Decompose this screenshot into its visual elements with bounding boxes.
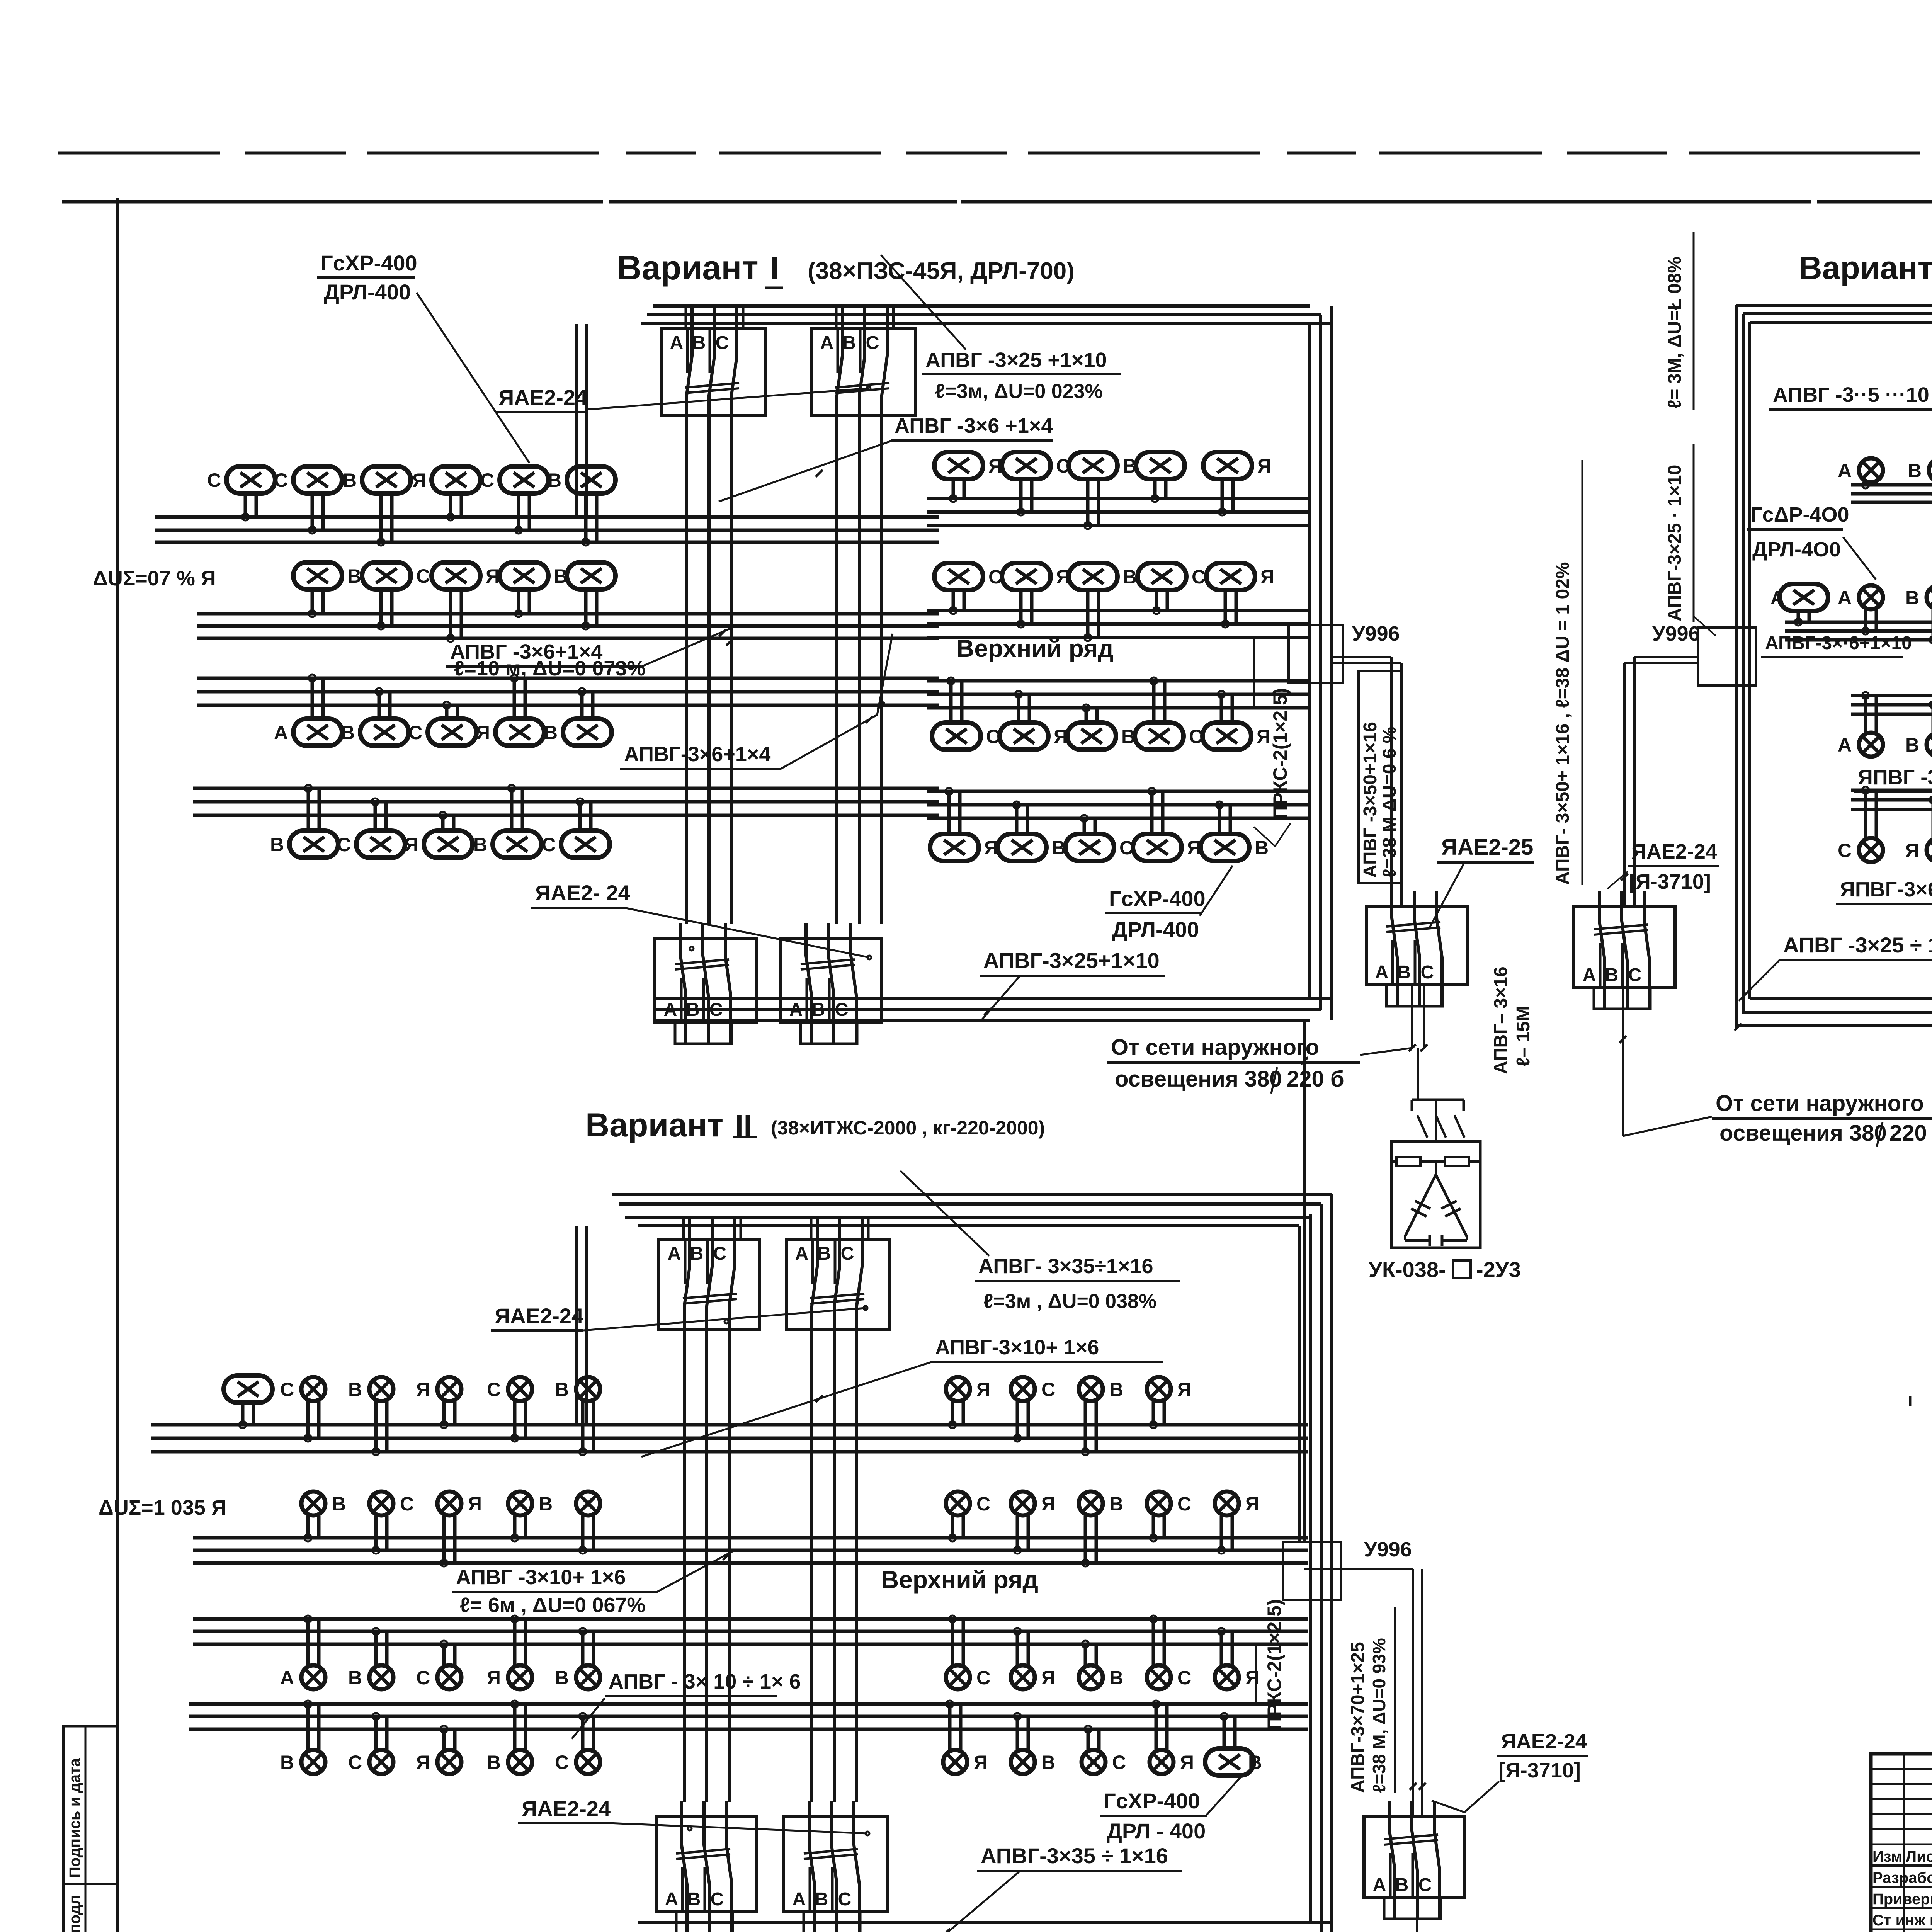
- svg-text:С: С: [986, 726, 1000, 747]
- svg-text:ℓ= 3М, ΔU=Ł 08%: ℓ= 3М, ΔU=Ł 08%: [1665, 257, 1685, 409]
- svg-text:С: С: [988, 566, 1002, 588]
- svg-text:В: В: [332, 1493, 346, 1515]
- svg-text:В: В: [1123, 566, 1137, 588]
- lamp row V1-3 right lamps: [932, 723, 1270, 750]
- svg-text:А: А: [795, 1243, 809, 1264]
- lamp row V2-3 left lamps: [280, 1665, 600, 1689]
- svg-text:А: А: [820, 333, 834, 353]
- wire bundle: V1 top routing: [653, 304, 1310, 308]
- svg-text:АПВГ- 3×50+ 1×16 , ℓ=38 ΔU = 1: АПВГ- 3×50+ 1×16 , ℓ=38 ΔU = 1 02%: [1553, 562, 1573, 885]
- wire: header row line: [1871, 1864, 1932, 1867]
- lamp row V2-4 left lamps: [280, 1750, 600, 1774]
- svg-text:АПВГ- 3×35÷1×16: АПВГ- 3×35÷1×16: [978, 1255, 1153, 1278]
- svg-text:От сети наружного: От сети наружного: [1716, 1091, 1924, 1116]
- svg-text:В: В: [341, 722, 355, 743]
- svg-text:ДРЛ-4О0: ДРЛ-4О0: [1752, 538, 1841, 561]
- wire: title block revision rows: [1871, 1768, 1932, 1770]
- svg-text:С: С: [542, 834, 556, 855]
- wire bundle: V2 top routing: [612, 1193, 1332, 1196]
- lamp row V1-2 left lamps: [293, 562, 616, 589]
- svg-text:С: С: [711, 1889, 724, 1910]
- lamp row V2-3 left bus wires: [193, 1619, 939, 1644]
- lamp row V3-4 left lamps: [1838, 838, 1932, 862]
- node: capacitor unit УК-038 switch bracket: [1412, 1099, 1464, 1101]
- wire bundle: V1 bottom routing: [655, 997, 1332, 1000]
- svg-text:С: С: [280, 1379, 294, 1400]
- lamp row V1-1 right lamps: [934, 452, 1271, 479]
- lamp row V2-2 left drop wires: [304, 1516, 594, 1566]
- lamp row V2-4 right lamps: [943, 1748, 1262, 1776]
- svg-text:Я: Я: [984, 837, 998, 859]
- svg-text:ℓ=3м , ΔU=0 038%: ℓ=3м , ΔU=0 038%: [983, 1290, 1156, 1313]
- lamp row V1-3 left lamps: [274, 719, 612, 746]
- svg-text:Вариант: Вариант: [585, 1107, 723, 1144]
- svg-text:ДРЛ-400: ДРЛ-400: [1112, 917, 1199, 942]
- svg-text:Я: Я: [1041, 1667, 1055, 1689]
- wire: title block verticals left table: [1903, 1754, 1905, 1932]
- node: title block frame: [1871, 1754, 1932, 1932]
- wire: sheet top border: [62, 200, 1932, 204]
- svg-text:С: С: [713, 1243, 727, 1264]
- svg-text:Я: Я: [468, 1493, 482, 1515]
- svg-text:АПВГ-3×70+1×25: АПВГ-3×70+1×25: [1348, 1642, 1368, 1793]
- svg-text:В: В: [692, 333, 706, 353]
- wire bundle: V3 top routing: [1736, 304, 1932, 307]
- svg-text:В: В: [1248, 1752, 1262, 1773]
- svg-text:Я: Я: [1056, 566, 1070, 588]
- svg-text:С: С: [1177, 1667, 1191, 1689]
- svg-text:С: С: [1838, 840, 1852, 861]
- svg-text:С: С: [838, 1889, 852, 1910]
- lamp row V2-4 left bus wires: [189, 1704, 939, 1729]
- wire: V1 feed down to V2: [1303, 1020, 1306, 1542]
- lamp row V1-4 right drop wires: [946, 788, 1230, 834]
- svg-text:ДРЛ - 400: ДРЛ - 400: [1107, 1819, 1206, 1843]
- breaker mid-right: [1574, 891, 1675, 1009]
- wire: V1 left riser pair to row1 bus: [575, 324, 578, 517]
- svg-text:Я: Я: [476, 722, 490, 743]
- svg-text:В: В: [815, 1889, 828, 1910]
- svg-text:Я: Я: [486, 565, 500, 587]
- label От сети наружного (middle, V1 feed) leader: [1360, 1048, 1412, 1055]
- svg-text:В: В: [1255, 837, 1269, 859]
- svg-text:С: С: [348, 1752, 362, 1773]
- svg-text:ГсХР-400: ГсХР-400: [1104, 1789, 1200, 1813]
- lamp row V3-1 left bus wires: [1851, 485, 1932, 502]
- lamp row V2-3 left drop wires: [304, 1616, 594, 1665]
- svg-text:Я: Я: [1245, 1667, 1259, 1689]
- svg-text:С: С: [1628, 965, 1642, 985]
- svg-text:В: В: [1395, 1875, 1409, 1895]
- svg-text:Я: Я: [1180, 1752, 1194, 1773]
- svg-text:Я: Я: [1177, 1379, 1191, 1400]
- svg-text:В: В: [1605, 965, 1619, 985]
- svg-text:Я: Я: [1041, 1493, 1055, 1515]
- svg-text:ЯПВГ -3×6÷ 1×4: ЯПВГ -3×6÷ 1×4: [1858, 766, 1932, 789]
- svg-text:Вариант: Вариант: [617, 248, 759, 287]
- lamp row V1-4 right lamps: [930, 834, 1269, 861]
- lamp row V2-2 right drop wires: [949, 1516, 1232, 1566]
- svg-text:А: А: [1375, 962, 1389, 983]
- svg-text:ΔUΣ=1 035 Я: ΔUΣ=1 035 Я: [99, 1496, 226, 1519]
- svg-text:В: В: [270, 834, 284, 855]
- svg-text:С: С: [480, 469, 494, 491]
- svg-text:У996: У996: [1652, 622, 1700, 645]
- wire bundle: V3 bottom routing: [1750, 997, 1932, 1000]
- lamp row V1-4 left drop wires: [305, 785, 591, 831]
- svg-text:С: С: [1421, 962, 1434, 983]
- svg-text:С: С: [1418, 1875, 1432, 1895]
- svg-text:Я: Я: [1260, 566, 1274, 588]
- node: capacitor unit УК-038 box: [1391, 1141, 1480, 1248]
- wire: U996-V1 to breaker link: [1332, 656, 1391, 658]
- breaker V2 bottom B: [784, 1801, 887, 1932]
- svg-text:С: С: [1189, 726, 1203, 747]
- lamp row V1-3 left drop wires: [309, 675, 593, 719]
- svg-text:В: В: [1123, 455, 1137, 477]
- wire: sheet left border: [116, 198, 119, 1932]
- node: УК resistors: [1396, 1157, 1420, 1166]
- node: U996 box V2: [1283, 1542, 1341, 1600]
- svg-text:В: В: [539, 1493, 553, 1515]
- svg-text:Приверил: Приверил: [1872, 1891, 1932, 1908]
- wire bundle: V1 right routing: [1308, 324, 1311, 999]
- svg-text:ℓ=38 М, ΔU=0 93%: ℓ=38 М, ΔU=0 93%: [1369, 1638, 1389, 1793]
- svg-text:Я: Я: [1257, 726, 1270, 747]
- lamp row V2-2 left bus wires: [193, 1538, 939, 1563]
- node: УК delta capacitors: [1405, 1175, 1436, 1236]
- svg-text:АПВГ -3··5 ···10: АПВГ -3··5 ···10: [1773, 383, 1929, 406]
- svg-text:В: В: [1398, 962, 1411, 983]
- breaker V2 top B: [786, 1217, 890, 1345]
- lamp row V3-2 left lamps: [1770, 584, 1932, 611]
- svg-text:І: І: [1908, 1393, 1912, 1410]
- wire: V2 left riser pair to row1 bus: [575, 1226, 578, 1425]
- svg-text:С: С: [841, 1243, 854, 1264]
- svg-text:Верхний ряд: Верхний ряд: [881, 1566, 1038, 1594]
- svg-text:Ст инж пр: Ст инж пр: [1872, 1912, 1932, 1929]
- svg-text:В: В: [1052, 837, 1066, 859]
- lamp row V2-1 right bus wires: [927, 1425, 1308, 1452]
- svg-text:-2У3: -2У3: [1476, 1257, 1521, 1282]
- svg-text:С: С: [487, 1379, 501, 1400]
- svg-text:освещения 380: освещения 380: [1115, 1066, 1282, 1092]
- svg-text:Верхний ряд: Верхний ряд: [956, 634, 1114, 662]
- svg-text:А: А: [665, 1889, 679, 1910]
- wire: strip divider horizontal: [63, 1883, 118, 1885]
- svg-text:ГсХР-400: ГсХР-400: [321, 251, 417, 275]
- svg-text:В: В: [347, 565, 361, 587]
- svg-text:У996: У996: [1364, 1538, 1412, 1561]
- svg-text:А: А: [670, 333, 684, 353]
- svg-text:Я: Я: [1257, 455, 1271, 477]
- svg-text:Я: Я: [1187, 837, 1201, 859]
- svg-text:АПВГ-3×6+1×4: АПВГ-3×6+1×4: [624, 743, 770, 766]
- svg-text:А: А: [1838, 460, 1852, 481]
- svg-text:ГсХР-400: ГсХР-400: [1109, 886, 1206, 911]
- wire: mid-left breaker to capacitor: [1411, 985, 1413, 1048]
- lamp row V2-2 left lamps: [301, 1492, 600, 1515]
- svg-text:ЯПВГ-3×6+ 1× 4: ЯПВГ-3×6+ 1× 4: [1840, 878, 1932, 901]
- svg-text:[Я-3710]: [Я-3710]: [1629, 870, 1711, 893]
- svg-text:А: А: [274, 722, 288, 743]
- svg-text:Я: Я: [988, 455, 1002, 477]
- svg-text:АПВГ-3×25+1×10: АПВГ-3×25+1×10: [983, 948, 1160, 973]
- svg-text:В: В: [343, 469, 357, 491]
- svg-text:АПВГ -3×25 +1×10: АПВГ -3×25 +1×10: [925, 349, 1107, 372]
- svg-text:В: В: [1041, 1752, 1055, 1773]
- svg-text:С: С: [207, 469, 221, 491]
- svg-text:АПВГ– 3×16: АПВГ– 3×16: [1491, 966, 1511, 1074]
- lamp row V2-1 left bus wires: [151, 1425, 939, 1452]
- svg-text:В: В: [1109, 1493, 1123, 1515]
- lamp row V2-3 right lamps: [946, 1665, 1259, 1689]
- svg-text:АПВГ-3×35 ÷ 1×16: АПВГ-3×35 ÷ 1×16: [981, 1844, 1168, 1868]
- svg-text:А: А: [1838, 734, 1852, 756]
- svg-text:[Я-3710]: [Я-3710]: [1498, 1759, 1581, 1782]
- svg-text:ГсΔР-4О0: ГсΔР-4О0: [1750, 503, 1849, 526]
- lamp row V2-3 right bus wires: [927, 1619, 1308, 1644]
- lamp row V3-3 left drop wires: [1862, 692, 1932, 732]
- wire: mid-right breaker down to network: [1622, 987, 1624, 1136]
- lamp row V2-3 right drop wires: [949, 1616, 1232, 1665]
- wire bundle: V1 riser B: [835, 429, 838, 924]
- svg-text:В: В: [1109, 1379, 1123, 1400]
- svg-text:ЯАЕ2-24: ЯАЕ2-24: [522, 1796, 611, 1821]
- svg-text:А: А: [668, 1243, 681, 1264]
- wire bundle: V1 riser A: [685, 429, 688, 924]
- svg-text:ΔUΣ=07 % Я: ΔUΣ=07 % Я: [93, 567, 216, 590]
- wire bundle: V2 riser A: [683, 1343, 686, 1802]
- svg-text:В: В: [473, 834, 487, 855]
- svg-text:В: В: [1109, 1667, 1123, 1689]
- svg-text:С: С: [1041, 1379, 1055, 1400]
- lamp row V2-1 right drop wires: [949, 1401, 1164, 1455]
- svg-text:В: В: [544, 722, 558, 743]
- lamp row V3-1 left drop wires: [1862, 481, 1932, 506]
- svg-text:АПВГ-3×·6+1×10: АПВГ-3×·6+1×10: [1765, 633, 1912, 653]
- svg-text:(38×ИТЖС-2000 , кг-220-2000): (38×ИТЖС-2000 , кг-220-2000): [771, 1117, 1045, 1139]
- lamp row V1-3 left bus wires: [197, 678, 939, 705]
- lamp row V2-1 left drop wires: [239, 1401, 594, 1455]
- svg-text:Разрабо: Разрабо: [1872, 1869, 1932, 1886]
- svg-text:С: С: [866, 333, 879, 353]
- svg-text:В: В: [687, 1889, 701, 1910]
- lamp row V2-1 right lamps: [946, 1377, 1191, 1401]
- svg-text:Инв №-подл: Инв №-подл: [66, 1895, 83, 1932]
- svg-text:АПВГ-3×25 · 1×10: АПВГ-3×25 · 1×10: [1665, 465, 1685, 621]
- svg-text:ЯАЕ2-24: ЯАЕ2-24: [498, 385, 587, 410]
- svg-text:ЯАЕ2- 24: ЯАЕ2- 24: [535, 881, 630, 905]
- breaker V1 bottom B: [781, 923, 882, 1044]
- svg-text:ЯАЕ2-24: ЯАЕ2-24: [1501, 1730, 1587, 1753]
- lamp row V1-1 right bus wires: [927, 498, 1308, 526]
- svg-text:освещения 380: освещения 380: [1719, 1121, 1887, 1146]
- breaker V1 top B: [811, 306, 916, 431]
- lamp row V1-2 right drop wires: [950, 590, 1236, 641]
- svg-text:АПВГ -3×25 ÷ 1× 10: АПВГ -3×25 ÷ 1× 10: [1783, 933, 1932, 957]
- svg-text:(38×ПЗС-45Я, ДРЛ-700): (38×ПЗС-45Я, ДРЛ-700): [808, 258, 1075, 284]
- svg-text:АПВГ-3×10+ 1×6: АПВГ-3×10+ 1×6: [935, 1336, 1099, 1359]
- svg-text:С: С: [1119, 837, 1133, 859]
- svg-text:ЯАЕ2-24: ЯАЕ2-24: [1631, 840, 1717, 863]
- svg-text:Я: Я: [487, 1667, 501, 1689]
- svg-text:В: В: [843, 333, 856, 353]
- svg-text:I: I: [770, 250, 779, 286]
- svg-text:АПВГ - 3× 10 ÷ 1× 6: АПВГ - 3× 10 ÷ 1× 6: [609, 1670, 801, 1693]
- wire: top scan artifact dashed line: [58, 152, 1932, 155]
- svg-text:Я: Я: [1245, 1493, 1259, 1515]
- lamp row V2-2 right bus wires: [927, 1538, 1308, 1563]
- svg-text:Я: Я: [974, 1752, 988, 1773]
- lamp row V1-2 left drop wires: [309, 589, 597, 642]
- svg-text:А: А: [1373, 1875, 1386, 1895]
- svg-text:Я: Я: [412, 469, 426, 491]
- label box АПВГ-3х50+1х16 vertical V1: [1359, 671, 1402, 883]
- wire: strip divider vertical: [85, 1726, 87, 1932]
- lamp row V2-4 right bus wires: [927, 1704, 1308, 1729]
- svg-text:В: В: [1905, 734, 1919, 756]
- svg-text:ℓ=38 М ΔU=0 6 %: ℓ=38 М ΔU=0 6 %: [1379, 727, 1400, 878]
- svg-text:АПВГ -3×50+1×16: АПВГ -3×50+1×16: [1360, 722, 1381, 878]
- svg-text:В: В: [548, 469, 561, 491]
- svg-text:С: С: [976, 1667, 990, 1689]
- svg-text:ℓ= 6м , ΔU=0 067%: ℓ= 6м , ΔU=0 067%: [460, 1594, 645, 1617]
- svg-text:У996: У996: [1352, 622, 1400, 645]
- svg-text:Я: Я: [1905, 840, 1919, 861]
- svg-text:С: С: [416, 565, 430, 587]
- svg-text:В: В: [1905, 587, 1919, 609]
- svg-text:Я: Я: [1054, 726, 1068, 747]
- svg-text:УК-038-: УК-038-: [1369, 1257, 1446, 1282]
- svg-text:С: С: [400, 1493, 414, 1515]
- lamp row V2-4 left drop wires: [304, 1701, 594, 1750]
- svg-text:Изм: Изм: [1872, 1848, 1902, 1865]
- svg-text:В: В: [1908, 460, 1922, 481]
- svg-text:С: С: [337, 834, 351, 855]
- svg-text:А: А: [1770, 587, 1784, 609]
- lamp row V1-2 right bus wires: [927, 611, 1308, 638]
- svg-text:Я: Я: [976, 1379, 990, 1400]
- node: left stamp strip box: [63, 1726, 118, 1932]
- svg-text:АПВГ -3×6 +1×4: АПВГ -3×6 +1×4: [895, 414, 1053, 437]
- svg-text:С: С: [1056, 455, 1070, 477]
- lamp row V2-4 right drop wires: [946, 1701, 1235, 1750]
- lamp row V1-1 left bus wires: [155, 517, 939, 542]
- lamp row V1-1 right drop wires: [950, 479, 1233, 529]
- breaker V2 bottom middle: [1364, 1801, 1464, 1919]
- svg-text:ДРЛ-400: ДРЛ-400: [324, 280, 411, 304]
- svg-text:В: В: [487, 1752, 501, 1773]
- lamp row V3-4 left bus wires: [1851, 790, 1932, 810]
- svg-text:220 б: 220 б: [1889, 1121, 1932, 1146]
- wire bundle: V3 left routing: [1735, 305, 1738, 1028]
- svg-text:В: В: [555, 1379, 569, 1400]
- svg-text:Я: Я: [405, 834, 418, 855]
- node: U996 box V1: [1289, 625, 1343, 683]
- svg-text:ℓ=3м, ΔU=0 023%: ℓ=3м, ΔU=0 023%: [935, 380, 1103, 403]
- svg-text:С: С: [408, 722, 422, 743]
- wire: U996-V2 link to bottom breaker: [1304, 1568, 1413, 1570]
- svg-text:В: В: [348, 1379, 362, 1400]
- svg-text:ЯАЕ2-25: ЯАЕ2-25: [1441, 835, 1533, 860]
- lamp row V3-3 left lamps: [1838, 733, 1932, 757]
- breaker V1 bottom A: [655, 923, 756, 1044]
- lamp row V3-4 left drop wires: [1862, 787, 1932, 838]
- lamp row V2-1 left lamps: [224, 1376, 600, 1403]
- svg-text:Вариант: Вариант: [1799, 250, 1932, 286]
- svg-text:В: В: [818, 1243, 831, 1264]
- svg-text:С: С: [274, 469, 288, 491]
- svg-text:А: А: [1838, 587, 1852, 609]
- svg-text:Лист: Лист: [1906, 1848, 1932, 1865]
- svg-text:ℓ=10 м, ΔU=0 073%: ℓ=10 м, ΔU=0 073%: [454, 657, 645, 680]
- wire: V1 row2-row3 right link: [1253, 638, 1255, 708]
- node: U996 box V3: [1698, 628, 1756, 685]
- breaker mid-left: [1366, 891, 1468, 1006]
- svg-text:А: А: [1583, 965, 1596, 985]
- breaker V2 top A: [659, 1217, 759, 1345]
- lamp row V1-3 right bus wires: [927, 681, 1308, 708]
- lamp row V1-4 right bus wires: [927, 791, 1308, 818]
- lamp row V1-1 left drop wires: [242, 493, 597, 546]
- lamp row V3-1 left lamps: [1838, 458, 1932, 482]
- svg-text:С: С: [1177, 1493, 1191, 1515]
- svg-text:Я: Я: [416, 1752, 430, 1773]
- svg-text:С: С: [555, 1752, 569, 1773]
- lamp row V2-2 right lamps: [946, 1492, 1259, 1515]
- lamp row V1-3 right drop wires: [947, 677, 1232, 723]
- wire bundle: V2 riser B: [810, 1343, 813, 1802]
- svg-text:С: С: [716, 333, 729, 353]
- svg-text:В: В: [555, 1667, 569, 1689]
- lamp row V1-4 left bus wires: [193, 788, 939, 815]
- wire: V2 row3-row4 right link: [1255, 1644, 1257, 1704]
- breaker V2 bottom A: [656, 1801, 757, 1932]
- wire: signature row lines: [1871, 1886, 1932, 1888]
- wire bundle: V2 right routing: [1309, 1214, 1312, 1922]
- svg-text:Подпись и дата: Подпись и дата: [66, 1758, 83, 1878]
- breaker V1 top A: [661, 306, 765, 431]
- lamp row V1-4 left lamps: [270, 831, 610, 858]
- svg-text:Я: Я: [416, 1379, 430, 1400]
- lamp row V1-2 right lamps: [934, 563, 1274, 590]
- svg-text:А: А: [793, 1889, 806, 1910]
- wire: U996-V3 link to mid-right breaker: [1634, 656, 1698, 658]
- svg-text:А: А: [280, 1667, 294, 1689]
- svg-text:С: С: [1112, 1752, 1126, 1773]
- wire: bottom middle breaker to network: [1416, 1897, 1418, 1932]
- svg-text:В: В: [1121, 726, 1135, 747]
- svg-text:ПРКС-2(1×2,5): ПРКС-2(1×2,5): [1269, 688, 1291, 819]
- lamp row V3-2 left drop wires: [1795, 610, 1932, 643]
- svg-text:С: С: [1192, 566, 1206, 588]
- svg-text:ЯАЕ2-24: ЯАЕ2-24: [495, 1304, 583, 1328]
- svg-text:В: В: [280, 1752, 294, 1773]
- svg-text:С: С: [976, 1493, 990, 1515]
- svg-text:В: В: [554, 565, 568, 587]
- svg-text:В: В: [348, 1667, 362, 1689]
- svg-text:АПВГ -3×10+ 1×6: АПВГ -3×10+ 1×6: [456, 1566, 626, 1589]
- svg-text:С: С: [416, 1667, 430, 1689]
- wire bundle: V2 bottom routing: [638, 1921, 1332, 1924]
- svg-text:220 б: 220 б: [1287, 1066, 1344, 1092]
- lamp row V3-3 left bus wires: [1851, 696, 1932, 714]
- svg-text:ℓ– 15М: ℓ– 15М: [1513, 1006, 1534, 1066]
- lamp row V1-1 left lamps: [207, 466, 616, 493]
- lamp row V1-2 left bus wires: [197, 614, 939, 638]
- svg-text:От сети наружного: От сети наружного: [1111, 1035, 1319, 1060]
